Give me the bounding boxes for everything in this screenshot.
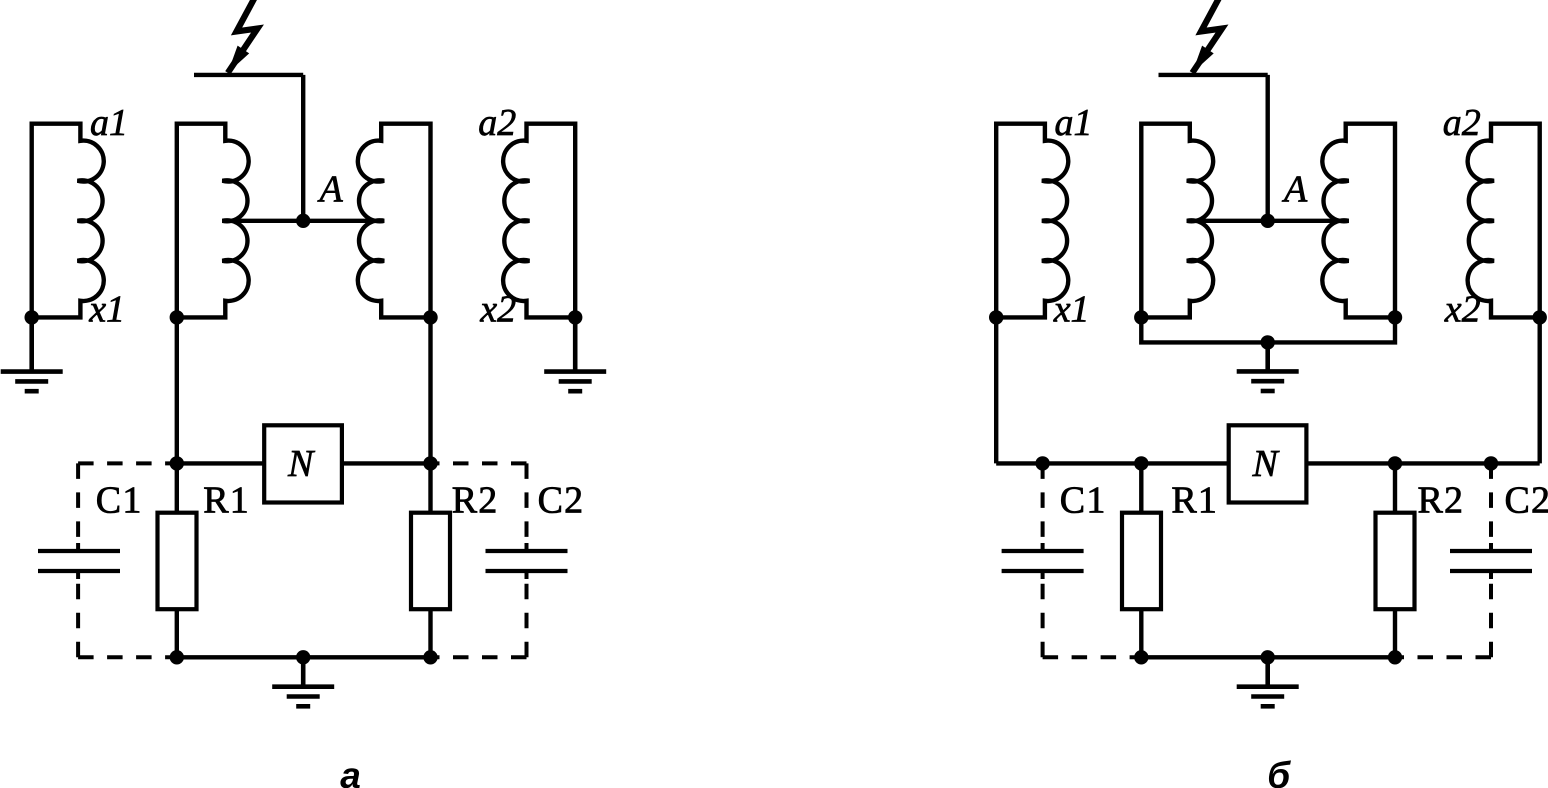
dashed: C2 box right edge upper (a) (525, 463, 529, 543)
junction right winding bottom (a) (423, 310, 437, 324)
wire: lightning feed horizontal (a) (194, 73, 303, 77)
svg-text:R2: R2 (1418, 479, 1465, 521)
dashed: C2 box top edge (a) (436, 461, 527, 465)
junction bottom left (a) (170, 650, 184, 664)
lightning impulse arrow (circuit b) (1192, 0, 1222, 73)
junction R2 top node (a) (423, 456, 437, 470)
dashed: C2 box bottom edge (a) (436, 655, 527, 659)
svg-text:C1: C1 (96, 479, 143, 521)
wire: centre tap between split windings (b) (1190, 219, 1346, 223)
svg-text:б: б (1267, 755, 1291, 788)
svg-text:A: A (1281, 169, 1308, 211)
relay box N (b) (1229, 425, 1307, 502)
dash stub above C1 plate (b) (1041, 543, 1045, 549)
ground bottom centre (b) (1237, 657, 1299, 706)
dash stub above C1 plate (a) (76, 543, 80, 549)
dashed: C1 box left edge lower (a) (76, 579, 80, 657)
dash stub above C2 plate (a) (525, 543, 529, 549)
wire: R2 bottom lead (a) (428, 609, 432, 657)
capacitor C2 (a) (486, 551, 568, 571)
svg-text:x1: x1 (1053, 288, 1090, 330)
wire: x2 down to N node (b) (1537, 317, 1541, 463)
dashed: C1 box top edge (a) (78, 461, 171, 465)
dashed: C1 box bottom edge (a) (78, 655, 171, 659)
winding a2-x2 (right outer, circuit b) (1468, 124, 1540, 318)
junction bottom centre (a) (296, 650, 310, 664)
svg-text:x2: x2 (479, 288, 516, 330)
resistor R1 (a) (158, 513, 197, 610)
svg-text:a2: a2 (1443, 102, 1481, 144)
wire: R2 bottom lead (b) (1393, 609, 1397, 657)
wire: bottom earth bus (a) (177, 655, 431, 659)
svg-text:a1: a1 (90, 102, 128, 144)
wire: left winding down to R1 (a) (175, 317, 179, 512)
wire: left node bus to box N (b) (996, 461, 1229, 465)
junction earth bus centre (b) (1261, 335, 1275, 349)
dash stub below C2 plate (a) (525, 573, 529, 579)
dashed: C1 branch lower (b) (1041, 579, 1045, 657)
junction R1 top (b) (1134, 456, 1148, 470)
svg-text:N: N (287, 443, 316, 485)
wire: R1 bottom lead (b) (1139, 609, 1143, 657)
capacitor C1 (a) (38, 551, 120, 571)
ground under split windings (b) (1237, 342, 1299, 391)
resistor R1 (b) (1122, 513, 1161, 610)
relay box N (a) (264, 425, 342, 502)
junction R1 top node (a) (170, 456, 184, 470)
wire: R1 node to box N (a) (177, 461, 265, 465)
wire: lightning feed vertical to node A (a) (301, 75, 305, 221)
wire: split-winding earth bus (b) (1141, 317, 1395, 342)
svg-text:R1: R1 (203, 479, 250, 521)
capacitor C1 (b) (1002, 551, 1084, 571)
svg-text:C1: C1 (1060, 479, 1107, 521)
dashed: C2 box bottom edge (b) (1401, 655, 1492, 659)
svg-text:C2: C2 (1505, 479, 1548, 521)
dashed: C2 branch lower (b) (1489, 579, 1493, 657)
dash stub below C1 plate (b) (1041, 573, 1045, 579)
junction C2 branch (b) (1484, 456, 1498, 470)
svg-text:x1: x1 (88, 288, 125, 330)
svg-text:N: N (1252, 443, 1281, 485)
ground under x1 (a) (1, 317, 63, 391)
dash stub below C1 plate (a) (76, 573, 80, 579)
junction bottom left (b) (1134, 650, 1148, 664)
wire: R1 bottom lead (a) (175, 609, 179, 657)
junction C1 branch (b) (1035, 456, 1049, 470)
wire: box N to right node bus (b) (1306, 461, 1540, 465)
node A junction dot (a) (296, 214, 310, 228)
svg-text:а: а (340, 755, 361, 788)
svg-text:C2: C2 (538, 479, 585, 521)
ground under x2 (a) (544, 317, 606, 391)
junction x2 node (b) (1533, 310, 1547, 324)
wire: right winding down to R2 (a) (428, 317, 432, 512)
junction x1 node (b) (989, 310, 1003, 324)
junction left winding bottom (b) (1134, 310, 1148, 324)
resistor R2 (a) (411, 513, 450, 610)
dashed: C1 box bottom edge (b) (1043, 655, 1136, 659)
junction x1-ground (a) (25, 310, 39, 324)
wire: centre tap between split windings (a) (225, 219, 381, 223)
winding right half of split transformer (b) (1322, 124, 1395, 318)
junction left winding bottom (a) (170, 310, 184, 324)
resistor R2 (b) (1376, 513, 1415, 610)
capacitor C2 (b) (1450, 551, 1532, 571)
junction bottom right (b) (1388, 650, 1402, 664)
wire: R2 top lead (b) (1393, 463, 1397, 512)
wire: lightning feed horizontal (b) (1159, 73, 1268, 77)
dash stub above C2 plate (b) (1489, 543, 1493, 549)
junction bottom centre (b) (1261, 650, 1275, 664)
wire: R1 top lead (b) (1139, 463, 1143, 512)
wire: lightning feed vertical to node A (b) (1265, 75, 1269, 221)
svg-text:A: A (317, 169, 344, 211)
svg-text:a2: a2 (478, 102, 516, 144)
junction bottom right (a) (423, 650, 437, 664)
lightning impulse arrow (circuit a) (228, 0, 258, 73)
winding a1-x1 (left outer, circuit b) (996, 124, 1068, 318)
junction R2 top (b) (1388, 456, 1402, 470)
svg-text:R2: R2 (452, 479, 499, 521)
dashed: C1 branch upper (b) (1041, 463, 1045, 543)
ground bottom centre (a) (272, 657, 334, 706)
dashed: C2 box right edge lower (a) (525, 579, 529, 657)
winding right half of split transformer (a) (358, 124, 431, 318)
junction right winding bottom (b) (1388, 310, 1402, 324)
winding a2-x2 (right outer, circuit a) (503, 124, 575, 318)
dashed: C2 branch upper (b) (1489, 463, 1493, 543)
node A junction dot (b) (1261, 214, 1275, 228)
wire: box N to R2 node (a) (342, 461, 431, 465)
svg-text:R1: R1 (1171, 479, 1218, 521)
dashed: C1 box left edge upper (a) (76, 463, 80, 543)
winding left half of split transformer (b) (1141, 124, 1213, 318)
wire: bottom earth bus (b) (1141, 655, 1395, 659)
junction x2-ground (a) (568, 310, 582, 324)
svg-text:a1: a1 (1055, 102, 1093, 144)
winding left half of split transformer (a) (177, 124, 249, 318)
wire: x1 down to N node (b) (994, 317, 998, 463)
dash stub below C2 plate (b) (1489, 573, 1493, 579)
winding a1-x1 (left outer, circuit a) (32, 124, 104, 318)
svg-text:x2: x2 (1444, 288, 1481, 330)
